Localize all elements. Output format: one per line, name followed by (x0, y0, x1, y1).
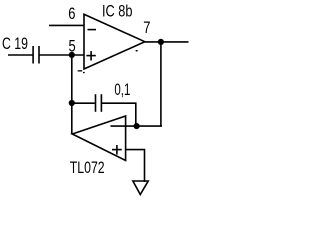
op-amp U1 inverting input marker (88, 29, 97, 31)
op-amp U2 non-inverting input marker (112, 145, 122, 155)
wire input stub to C19 (8, 54, 33, 56)
wire inverting input U2 with minus bar (111, 125, 163, 127)
wire C19 to op-amp pin 5 (39, 54, 84, 56)
wire feedback vertical from pin7 node (160, 42, 162, 126)
wire junction to C 0,1 (72, 102, 95, 104)
wire pin 6 stub (49, 24, 84, 26)
svg-text:6: 6 (68, 5, 75, 23)
node junction at pin 5 (69, 52, 75, 58)
svg-text:C 19: C 19 (2, 35, 28, 53)
node junction at pin 7 output (158, 39, 164, 45)
wire C 0,1 to inverting node (102, 103, 136, 126)
svg-text:7: 7 (143, 19, 150, 37)
svg-text:TL072: TL072 (70, 159, 105, 177)
stray dot below U1 bottom corner (83, 72, 85, 73)
wire pin5 node down to U2 output apex (71, 55, 73, 134)
ground symbol (133, 181, 148, 195)
capacitor C19 plates (33, 46, 39, 64)
wire op-amp U1 output pin 7 (145, 41, 189, 43)
stray mark near U1 apex (136, 50, 138, 52)
svg-text:0,1: 0,1 (114, 81, 130, 99)
wire non-inverting input U2 to ground (126, 150, 145, 182)
capacitor 0,1 plates (96, 94, 102, 112)
node junction at inverting input U2 (134, 123, 140, 129)
op-amp U2 TL072 triangle (72, 116, 125, 161)
svg-text:IC 8b: IC 8b (102, 3, 133, 21)
op-amp U1 non-inverting input marker (86, 51, 95, 60)
node junction at C 0,1 branch (69, 100, 75, 106)
svg-text:5: 5 (69, 37, 76, 55)
stray dash below U1 bottom corner (78, 70, 83, 71)
op-amp U1 IC8b triangle (84, 14, 145, 69)
